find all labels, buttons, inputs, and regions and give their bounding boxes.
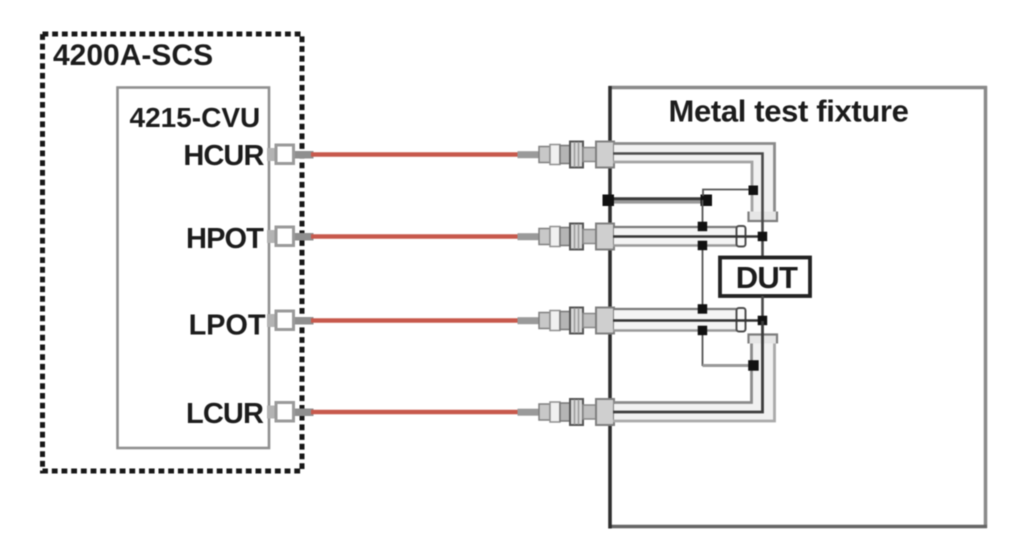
HCUR cable tip xyxy=(518,151,541,158)
junction: LPOT shield bottom x bus xyxy=(698,326,708,336)
svg-text:Metal test fixture: Metal test fixture xyxy=(669,94,909,129)
svg-text:4200A-SCS: 4200A-SCS xyxy=(53,39,213,72)
shield bus elbow to LCUR shield xyxy=(703,364,754,367)
LCUR connector at CVU xyxy=(267,403,314,422)
svg-text:LCUR: LCUR xyxy=(186,398,264,430)
strap terminal square at right end xyxy=(701,195,713,207)
4215-CVU box xyxy=(118,88,270,449)
DUT box xyxy=(720,258,810,297)
HCUR shield outer line (top), bends down at right xyxy=(613,144,775,215)
metal test fixture box: right edge xyxy=(984,86,988,528)
HPOT shield bottom line xyxy=(613,244,738,247)
strap terminal square on wall xyxy=(603,195,615,207)
HPOT shield tube end cap xyxy=(737,226,746,247)
HPOT center conductor to node xyxy=(613,235,763,238)
shield bus: vertical line through HPOT and LPOT shields xyxy=(702,200,704,366)
shield strap to fixture wall (thick) xyxy=(610,197,706,200)
LCUR coax shield tube fill (horizontal run) xyxy=(614,404,773,420)
LCUR shield outer line (bottom), bends up xyxy=(613,343,775,421)
node: LPOT/LCUR centers joined xyxy=(758,316,768,326)
svg-text:DUT: DUT xyxy=(736,260,798,295)
HCUR coax shield tube fill (horizontal run) xyxy=(614,145,773,162)
LPOT coax tube fill xyxy=(614,310,736,330)
LCUR cable (red coax) xyxy=(311,410,520,415)
HPOT connector at CVU xyxy=(267,227,314,246)
junction square on HCUR descending shield xyxy=(749,186,759,196)
HPOT shield top line xyxy=(613,226,738,228)
LCUR cable tip xyxy=(518,409,541,416)
node: HCUR/HPOT centers joined xyxy=(758,232,768,242)
LPOT shield bottom line xyxy=(613,329,738,332)
HCUR connector at CVU xyxy=(267,145,314,164)
HCUR center conductor: right then down to DUT top node xyxy=(613,154,763,258)
LCUR shield tube end cap xyxy=(749,335,778,344)
HCUR cable (red coax) xyxy=(311,152,520,157)
wire DUT bottom to low node xyxy=(761,296,764,321)
LCUR shield inner line (top), bends up xyxy=(613,343,752,403)
svg-text:LPOT: LPOT xyxy=(189,310,266,342)
svg-text:HPOT: HPOT xyxy=(186,223,264,255)
HPOT cable (red coax) xyxy=(311,234,520,239)
junction square on LCUR ascending shield xyxy=(748,360,759,371)
4200A-SCS dashed enclosure xyxy=(43,34,303,471)
svg-text:HCUR: HCUR xyxy=(183,140,264,172)
junction: LPOT shield top x bus xyxy=(698,304,708,314)
LPOT cable (red coax) xyxy=(311,318,520,323)
LPOT BNC plug + bulkhead at fixture xyxy=(539,308,614,334)
LCUR center conductor: up then left xyxy=(613,321,763,412)
LPOT cable tip xyxy=(518,317,541,324)
HCUR shield inner line (bottom), bends down xyxy=(613,162,752,214)
metal test fixture box: left wall xyxy=(608,86,612,529)
metal test fixture box: bottom edge xyxy=(609,525,988,529)
LPOT shield tube end cap xyxy=(737,308,746,332)
svg-text:4215-CVU: 4215-CVU xyxy=(130,102,261,133)
shield link: up from strap and right to HCUR shield xyxy=(703,190,753,197)
LPOT connector at CVU xyxy=(267,311,314,330)
HCUR shield tube end cap xyxy=(749,212,778,222)
HPOT BNC plug + bulkhead at fixture xyxy=(539,224,614,250)
HCUR BNC plug + bulkhead at fixture xyxy=(539,142,614,168)
LPOT center conductor to node xyxy=(613,319,763,322)
metal test fixture box: top edge xyxy=(609,86,988,90)
LCUR BNC plug + bulkhead at fixture xyxy=(539,399,614,425)
HPOT cable tip xyxy=(518,233,541,240)
LPOT shield top line xyxy=(613,308,738,310)
HPOT coax tube fill xyxy=(614,228,736,245)
junction: HPOT shield bottom x bus xyxy=(698,241,708,251)
junction: HPOT shield top x bus xyxy=(698,222,708,232)
